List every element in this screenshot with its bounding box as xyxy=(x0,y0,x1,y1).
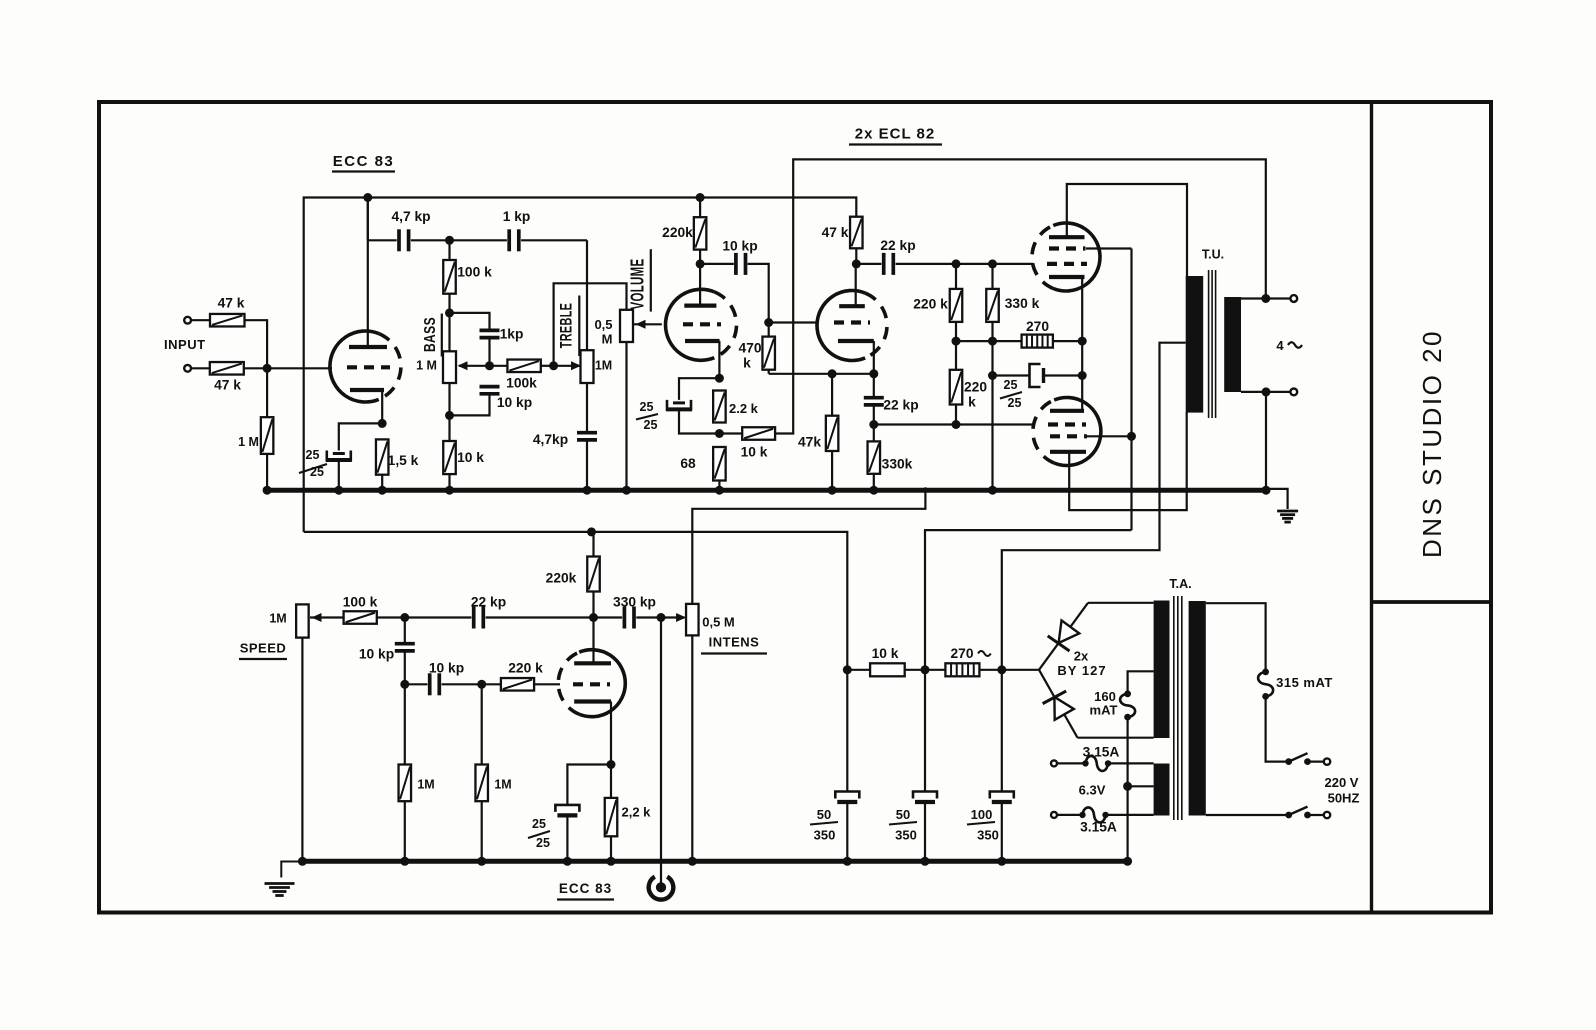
wire V2 cathode lead xyxy=(718,341,720,378)
wire upper diode to transformer xyxy=(1088,602,1154,604)
node tremolo anode node xyxy=(589,613,598,622)
wire B+ rail preamp xyxy=(304,198,857,532)
transformer T.U. secondary winding bar xyxy=(1224,297,1241,392)
wire C 1kp to treble riser xyxy=(521,239,587,241)
capacitor 4,7kp coupling xyxy=(399,229,409,251)
wire 1,5k to ground bus xyxy=(381,475,383,491)
capacitor 22kp coupling lower xyxy=(864,398,884,405)
label 0,5 M intens xyxy=(702,615,735,630)
wire intens pot bottom to ground bus xyxy=(691,635,693,861)
node rectifier output xyxy=(997,665,1006,674)
node N1 at 220k xyxy=(952,337,961,346)
svg-text:4: 4 xyxy=(1276,338,1284,353)
wire screen bus vertical xyxy=(1130,249,1132,531)
tube V2 ECC83 triode b xyxy=(665,289,736,360)
wire V4 g2 to screen bus xyxy=(1086,247,1132,249)
wire V6 anode riser xyxy=(592,618,594,664)
wire bypass cap to ground bus xyxy=(338,460,340,490)
resistor 220k lower grid chain xyxy=(950,370,963,405)
transformer T.A. HV winding bar xyxy=(1154,601,1170,739)
ground bus upper xyxy=(266,488,1268,493)
label VOLUME (vertical) xyxy=(628,249,651,311)
wire junction down to R 1M xyxy=(266,368,268,417)
resistor 330k lower grid leak xyxy=(868,441,881,473)
svg-text:4,7kp: 4,7kp xyxy=(533,432,568,447)
wire primary bottom to switch xyxy=(1206,814,1286,816)
wire HV tap to fuse xyxy=(1128,671,1154,694)
wire V5 g2 to screen bus xyxy=(1086,435,1132,437)
tube V6 ECC83 tremolo xyxy=(558,650,625,717)
tube V4 anode bar xyxy=(1049,235,1085,239)
label 25/25 V2 (fraction) xyxy=(636,400,658,432)
node V5 g2 junction xyxy=(1127,432,1136,441)
svg-text:315 mAT: 315 mAT xyxy=(1276,675,1333,690)
resistor 330k upper grid chain xyxy=(986,289,999,322)
wire cap1 to ground bus xyxy=(846,802,848,861)
wire volume pot bottom to ground bus xyxy=(625,342,627,490)
fuse 160mAT xyxy=(1120,690,1135,720)
wire secondary bottom to output terminal xyxy=(1241,391,1290,393)
svg-text:25: 25 xyxy=(644,418,658,432)
node V2 cathode xyxy=(715,374,724,383)
wire C 4,7kp treble to ground bus xyxy=(586,440,588,490)
resistor 47k input upper xyxy=(210,314,245,327)
label 1 kp xyxy=(503,209,531,224)
resistor 100k tremolo xyxy=(344,611,377,624)
svg-text:220 k: 220 k xyxy=(508,661,543,676)
resistor 100k wiper xyxy=(507,360,540,373)
title block divider horizontal xyxy=(1372,600,1492,604)
wire net a to C 10kp-2 xyxy=(405,683,428,685)
svg-text:2,2 k: 2,2 k xyxy=(622,805,652,820)
svg-text:220 k: 220 k xyxy=(913,297,948,312)
capacitor 22kp coupling upper xyxy=(884,253,894,275)
svg-text:25: 25 xyxy=(532,817,546,831)
terminal mains upper xyxy=(1324,758,1330,764)
ground symbol lower left xyxy=(265,862,303,896)
label 10 kp bass xyxy=(497,395,532,410)
resistor 1M tremolo 1 xyxy=(399,765,412,802)
svg-text:ECC 83: ECC 83 xyxy=(559,881,612,896)
label 47k V3 cathode xyxy=(798,435,821,450)
wire 220k load top to B+ line xyxy=(592,532,594,557)
node treble wiper line xyxy=(549,361,558,370)
svg-text:350: 350 xyxy=(895,828,917,843)
wire 100k to bass node xyxy=(448,294,450,313)
svg-text:10 kp: 10 kp xyxy=(359,647,394,662)
wire filter2 to cap xyxy=(924,670,926,792)
wire R 1M-1 to ground bus xyxy=(404,801,406,861)
wire 330k chain top xyxy=(991,264,993,289)
label 4,7kp xyxy=(533,432,568,447)
resistor 470k grid leak xyxy=(762,337,775,370)
fuse 3.15A upper xyxy=(1082,756,1111,771)
arrow intens wiper xyxy=(661,613,686,622)
svg-text:25: 25 xyxy=(1008,396,1022,410)
node bus cap3 xyxy=(997,857,1006,866)
input terminal lower xyxy=(184,365,191,372)
label 1M speed xyxy=(269,612,286,626)
label 47k upper xyxy=(218,296,245,311)
node bus 2,2k xyxy=(607,857,616,866)
wire 47k load bottom xyxy=(855,248,857,264)
tube V4 cathode bar xyxy=(1049,275,1085,279)
transformer T.U. core lines xyxy=(1209,270,1216,418)
tube V5 g2 dashes xyxy=(1050,434,1087,438)
svg-text:25: 25 xyxy=(306,448,320,462)
arrow treble wiper xyxy=(554,361,581,370)
svg-text:M: M xyxy=(602,332,613,347)
wire filament lower to fuse xyxy=(1057,814,1080,816)
node 25/25 left xyxy=(988,371,997,380)
node B+ tap for tremolo anode xyxy=(587,527,596,536)
node bus cap2 xyxy=(921,857,930,866)
wire V1 anode riser to B+ rail xyxy=(367,198,369,348)
label 22 kp lower xyxy=(883,398,918,413)
wire V3 cathode line xyxy=(769,373,874,375)
label 2.2 k xyxy=(729,401,759,416)
potentiometer SPEED 1M xyxy=(296,604,309,637)
node bus 1M input xyxy=(263,486,272,495)
tube V6 cathode bar xyxy=(574,699,611,703)
wire node to C 22kp tremolo xyxy=(405,616,472,618)
node filter 2 xyxy=(921,665,930,674)
svg-text:1 M: 1 M xyxy=(238,435,259,449)
wire 47k cathode to ground bus xyxy=(831,451,833,490)
svg-text:VOLUME: VOLUME xyxy=(628,259,648,310)
svg-text:350: 350 xyxy=(977,828,999,843)
svg-text:47 k: 47 k xyxy=(218,296,245,311)
svg-text:1 M: 1 M xyxy=(416,359,437,373)
resistor 220k upper grid chain xyxy=(950,289,963,322)
svg-text:1,5 k: 1,5 k xyxy=(388,453,419,468)
svg-text:25: 25 xyxy=(310,465,324,479)
label TREBLE (vertical) xyxy=(556,296,579,357)
ground symbol upper right xyxy=(1277,511,1298,522)
label 22 kp tremolo xyxy=(471,595,506,610)
node V1 cathode junction xyxy=(378,419,387,428)
wire tone node to 100k xyxy=(448,240,450,260)
capacitor 330kp tremolo out xyxy=(624,607,634,629)
svg-text:50: 50 xyxy=(896,807,910,822)
svg-text:100 k: 100 k xyxy=(457,265,492,280)
wire V4 anode to transformer primary top xyxy=(1067,184,1187,278)
transformer T.A. 6.3V winding bar xyxy=(1154,764,1170,816)
wire N1 link xyxy=(956,340,1022,342)
wire bass bypass top xyxy=(450,313,490,330)
wire treble node up and over to volume pot xyxy=(554,283,627,366)
capacitor 22kp tremolo xyxy=(474,607,484,629)
svg-text:BY 127: BY 127 xyxy=(1057,663,1106,678)
switch mains upper xyxy=(1285,753,1323,765)
wire intens node to jack xyxy=(660,618,662,885)
node bus 330k lower xyxy=(869,486,878,495)
diode BY127 upper xyxy=(1039,603,1088,670)
resistor 47k V3 anode load xyxy=(850,217,863,249)
label BASS (vertical) xyxy=(420,314,441,357)
wire V3 anode riser xyxy=(855,264,857,306)
svg-text:68: 68 xyxy=(680,456,696,471)
wire 47k lower to junction xyxy=(244,367,267,369)
node bus 1,5k xyxy=(378,486,387,495)
node bus 25/25 tremolo xyxy=(563,857,572,866)
node N1 at 330k xyxy=(988,337,997,346)
output terminal upper xyxy=(1290,295,1297,302)
wire V5 anode to transformer primary bottom xyxy=(1069,412,1187,510)
node grid input junction xyxy=(263,364,272,373)
wire treble riser down to pot xyxy=(586,240,588,350)
wire C 22kp to anode node xyxy=(486,616,594,618)
label 0,5 M volume xyxy=(594,317,612,347)
wire 220k load bottom xyxy=(592,592,594,618)
diode BY127 lower xyxy=(1039,670,1078,738)
wire secondary bottom to ground bus xyxy=(1265,392,1267,490)
wire speed pot bottom to ground bus xyxy=(301,638,303,862)
resistor 47k input lower xyxy=(210,362,244,375)
tube V6 grid dashes xyxy=(573,682,610,686)
label INPUT xyxy=(164,337,206,352)
label 25/25 output (fraction) xyxy=(1000,378,1022,410)
wire V2 anode riser xyxy=(699,198,701,306)
wire R 1M to ground bus xyxy=(266,454,268,490)
wire R 220k to V6 grid xyxy=(534,683,560,685)
ground bus lower xyxy=(300,859,1128,864)
wire lower diode to transformer xyxy=(1078,737,1154,739)
wire mains fuse to switch xyxy=(1266,696,1286,761)
label 50/350 no2 xyxy=(889,807,917,843)
node tremolo grid node xyxy=(400,613,409,622)
svg-text:1M: 1M xyxy=(494,778,511,792)
capacitor 25/25 V1 cathode bypass xyxy=(326,451,352,461)
label 25/25 V1 (fraction) xyxy=(299,448,327,479)
wire fuse to 6.3V winding bottom xyxy=(1106,814,1154,816)
wire V3 anode node to C 22kp xyxy=(856,263,881,265)
svg-text:0,5: 0,5 xyxy=(594,317,612,332)
node V3 grid junction xyxy=(764,318,773,327)
tube V6 anode bar xyxy=(574,661,611,665)
svg-text:10 k: 10 k xyxy=(741,445,768,460)
wire 10k tone to ground bus xyxy=(448,474,450,490)
svg-text:330 kp: 330 kp xyxy=(613,595,656,610)
node intens ground link at bus xyxy=(923,487,927,491)
tube V1 ECC83 triode a xyxy=(330,331,401,402)
tube V4 ECL82 pentode upper xyxy=(1032,223,1100,291)
tube V3 cathode bar xyxy=(838,339,874,343)
wire input upper to R 47k xyxy=(191,319,210,321)
resistor 220k V2 anode load xyxy=(694,217,707,249)
svg-text:INTENS: INTENS xyxy=(709,635,760,650)
svg-text:270: 270 xyxy=(950,646,973,661)
label 270 PSU xyxy=(950,646,990,661)
svg-text:10 k: 10 k xyxy=(872,646,899,661)
label 100 k xyxy=(457,265,492,280)
wire NFB riser and feedback line xyxy=(775,159,1266,433)
transformer T.A. primary winding bar xyxy=(1189,601,1206,816)
wire net a down to R 1M-1 xyxy=(404,684,406,764)
svg-text:220k: 220k xyxy=(546,571,577,586)
wire node down to C 10kp-1 xyxy=(404,618,406,644)
node cathode column at 270 xyxy=(1078,337,1087,346)
wire bass wiper to 100k xyxy=(490,365,508,367)
node bus 10k tone xyxy=(445,486,454,495)
wire 68 to ground bus xyxy=(718,481,720,491)
wire bypass loop left xyxy=(679,378,719,400)
label 220k V2 xyxy=(662,225,693,240)
svg-text:3.15A: 3.15A xyxy=(1083,745,1120,760)
tube V3 anode bar xyxy=(839,304,865,308)
wire 47k upper corner down to grid node xyxy=(245,320,268,368)
svg-text:470: 470 xyxy=(738,341,761,356)
svg-text:1 kp: 1 kp xyxy=(503,209,531,224)
potentiometer VOLUME 0,5M xyxy=(620,310,633,342)
label 220 k t-grid xyxy=(508,661,543,676)
label 4,7 kp xyxy=(391,209,430,224)
svg-text:1kp: 1kp xyxy=(500,327,524,342)
svg-text:k: k xyxy=(743,356,751,371)
capacitor 50/350 no1 xyxy=(835,792,859,803)
tube V4 g2 dashes xyxy=(1049,246,1086,250)
wire 2,2k to ground bus xyxy=(610,836,612,861)
label INTENS xyxy=(701,635,767,654)
resistor 2,2k tremolo xyxy=(605,798,618,836)
wire C 10kp-1 to grid line xyxy=(404,651,406,684)
svg-text:10 kp: 10 kp xyxy=(429,661,464,676)
svg-text:k: k xyxy=(968,395,976,410)
label 47 k V3 xyxy=(822,225,849,240)
svg-text:220k: 220k xyxy=(662,225,693,240)
svg-text:270: 270 xyxy=(1026,319,1049,334)
tube V4 g1 dashes xyxy=(1047,262,1087,266)
label 22 kp upper xyxy=(880,238,915,253)
node bus secondary return xyxy=(1262,486,1271,495)
node V2 anode load junction xyxy=(696,259,705,268)
label 10 kp V2 xyxy=(722,239,757,254)
label 270 bias xyxy=(1026,319,1049,334)
wire net b to R 220k xyxy=(482,683,501,685)
label T.U. xyxy=(1202,248,1224,262)
svg-text:47 k: 47 k xyxy=(822,225,849,240)
svg-text:2.2 k: 2.2 k xyxy=(729,401,759,416)
svg-text:22 kp: 22 kp xyxy=(471,595,506,610)
wire C 10kp-2 to net b xyxy=(442,683,482,685)
wire C 10kp to V3 grid node xyxy=(748,264,769,323)
capacitor 100/350 xyxy=(990,792,1014,803)
label 330 kp xyxy=(613,595,656,610)
tube V5 g1 dashes xyxy=(1048,422,1086,426)
wire filament upper to fuse xyxy=(1057,762,1083,764)
wire V1 cathode lead down xyxy=(381,390,383,423)
wire net b down to R 1M-2 xyxy=(481,684,483,764)
wire fuse 160mAT to ground bus xyxy=(1126,717,1128,861)
node T5 grid line mid xyxy=(952,420,961,429)
node bus intens pot xyxy=(688,857,697,866)
svg-text:4,7 kp: 4,7 kp xyxy=(391,209,430,224)
transformer T.U. primary winding bar xyxy=(1186,276,1204,413)
label 2x BY127 xyxy=(1057,649,1106,679)
node above bass pot xyxy=(445,308,454,317)
svg-text:22 kp: 22 kp xyxy=(880,238,915,253)
node bus 1M t2 xyxy=(477,857,486,866)
wire 25/25 right lead xyxy=(1044,374,1083,376)
switch mains lower xyxy=(1285,807,1323,819)
resistor 220k tremolo grid xyxy=(501,678,534,691)
label 2x ECL 82 xyxy=(849,126,942,145)
node secondary bottom xyxy=(1262,387,1271,396)
tube V3 grid dashes xyxy=(834,320,870,324)
node filter 1 xyxy=(843,665,852,674)
node bus 25/25 V1 xyxy=(334,486,343,495)
tube V1 cathode bar xyxy=(350,388,384,392)
svg-text:25: 25 xyxy=(1004,378,1018,392)
node bus 68 xyxy=(715,486,724,495)
resistor 100k tone xyxy=(443,260,456,294)
svg-text:50HZ: 50HZ xyxy=(1328,791,1360,806)
node 47k cathode top xyxy=(828,369,837,378)
wire V3 grid xyxy=(769,321,818,323)
svg-text:INPUT: INPUT xyxy=(164,337,206,352)
wire V3 cathode lead xyxy=(873,341,875,374)
capacitor 10kp bass bypass xyxy=(480,387,500,394)
label 1M input xyxy=(238,435,259,449)
node bus 47k cathode xyxy=(828,486,837,495)
wire 100k to node xyxy=(377,616,405,618)
wire 25/25 left lead xyxy=(993,374,1030,376)
wire 330k top lead xyxy=(873,425,875,442)
capacitor 25/25 V2 bypass xyxy=(666,400,692,410)
resistor 270 cathode bias xyxy=(1022,335,1053,348)
node 330k top xyxy=(988,259,997,268)
svg-text:T.A.: T.A. xyxy=(1169,577,1191,591)
label 220k tremolo xyxy=(546,571,577,586)
wire 470k bottom to cathode line xyxy=(768,370,770,374)
wire V1 anode down from rail junction xyxy=(367,198,369,241)
resistor 1M tremolo 2 xyxy=(475,765,488,802)
label 1 M bass xyxy=(416,359,437,373)
capacitor 1kp coupling xyxy=(509,229,519,251)
wire bus to chassis ground xyxy=(1267,489,1288,509)
label ECC 83 (tremolo) xyxy=(557,881,614,900)
node secondary top feedback xyxy=(1261,294,1270,303)
output terminal lower xyxy=(1290,389,1297,396)
tube V2 cathode bar xyxy=(685,339,720,343)
node tremolo net b xyxy=(477,680,486,689)
tube V5 anode bar xyxy=(1050,450,1086,454)
svg-text:350: 350 xyxy=(814,828,836,843)
wire output cathode column xyxy=(1081,277,1083,411)
label 10 kp t2 xyxy=(429,661,464,676)
tube V1 anode bar xyxy=(349,345,387,349)
wire B+ feed line (filtered) to PSU xyxy=(304,532,848,670)
wire T.U. center tap to raw B+ xyxy=(1002,343,1186,670)
capacitor 4,7kp treble xyxy=(577,433,597,440)
wire filter2 to R 270 xyxy=(925,669,945,671)
wire 330k to ground bus xyxy=(873,474,875,490)
node tremolo net a xyxy=(400,680,409,689)
svg-text:DNS STUDIO 20: DNS STUDIO 20 xyxy=(1417,329,1447,558)
tube V2 anode bar xyxy=(684,304,716,308)
node cathode column at cap xyxy=(1078,371,1087,380)
capacitor 25/25 output bias bypass xyxy=(1030,364,1044,387)
label 10 k tone xyxy=(457,450,484,465)
capacitor 50/350 no2 xyxy=(913,792,937,803)
label 6.3V xyxy=(1079,783,1106,798)
svg-text:mAT: mAT xyxy=(1090,703,1118,718)
wire cap2 to ground bus xyxy=(924,802,926,861)
svg-text:1M: 1M xyxy=(417,778,434,792)
label 68 xyxy=(680,456,696,471)
node 6.3V center tap xyxy=(1123,782,1132,791)
svg-text:330k: 330k xyxy=(882,457,913,472)
